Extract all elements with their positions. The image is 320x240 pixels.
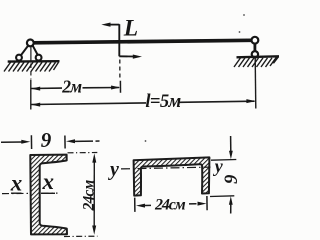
section1 dim 24cm bottom arrowhead [92,226,96,235]
svg-text:24см: 24см [154,197,186,214]
svg-text:9: 9 [41,128,52,152]
svg-text:x: x [42,169,55,194]
section1 dim 9 right arrow line [75,140,94,142]
section2 dim 9 bottom extension [210,195,234,198]
support A roller right [36,55,42,61]
dimension 2m line left part [32,87,63,89]
support B upper pin circle [252,37,259,44]
section1 dim 9 left arrowhead [21,140,30,144]
moment L top arrowhead [101,23,110,27]
section1 dim 24cm line [93,161,95,227]
section2 dim 9 up arrowhead [229,196,233,205]
dimension l=5m line left part [32,103,147,105]
support B link [253,43,256,51]
dimension 2m right arrowhead [111,86,120,90]
support B lower pin circle [252,51,258,57]
section2 dim 9 up arrow line [230,204,232,214]
channel section 1 (web left, opening right) [30,155,67,235]
svg-text:2м: 2м [61,76,82,96]
svg-text:x: x [10,171,23,196]
axis y-y centerline [121,167,211,169]
section1 dim 24cm bottom extension [64,235,98,237]
dimension l=5m line right part [180,101,255,102]
moment L vertical line [118,24,120,56]
section2 dim 24cm right tick [206,196,208,210]
section2 dim 24cm right arrowhead [198,202,207,206]
support B ground hatching [234,57,278,68]
dimension l=5m right arrowhead [246,99,255,103]
svg-text:24см: 24см [80,179,97,211]
section2 dim 9 top extension [211,159,236,162]
section1 dim 9 left arrow line [1,141,22,143]
dimension 2m line right part [83,87,120,89]
support A ground line [8,60,60,63]
support A roller left [16,55,22,61]
moment L top arm [108,24,119,26]
speck 2 [243,14,245,16]
svg-text:l=5м: l=5м [145,92,181,112]
dimension 2m left arrowhead [31,87,40,91]
section1 dim 9 right tick [64,136,66,149]
svg-text:L: L [123,16,138,42]
label x left underline [11,192,22,194]
moment L bottom arm [119,55,134,57]
support B ground line [237,56,280,57]
axis x-x centerline right part [42,192,58,194]
support A triangle left leg [21,46,29,56]
svg-text:y: y [213,156,224,176]
section2 dim 24cm line right [189,203,197,205]
speck 3 [239,31,241,33]
support A ground hatching [4,62,59,71]
section2 dim 9 down arrowhead [229,151,233,160]
section2 dim 9 down arrow line [230,136,232,152]
section1 dim 24cm top arrowhead [92,153,96,162]
moment L bottom arrowhead [133,55,142,59]
dimension l=5m left arrowhead [31,103,40,107]
section1 dim 9 right arrowhead [66,139,75,143]
channel section 2 (web top, opening down) [134,157,210,195]
svg-text:y: y [108,159,119,181]
support B extension line down [254,58,257,109]
speck 1 [145,140,147,142]
support A extension line down [30,46,32,62]
section2 dim 24cm left tick [134,198,136,212]
section2 dim 24cm left arrowhead [136,204,145,208]
axis x-x centerline left part [2,192,29,194]
support A triangle right leg [33,46,38,56]
section1 dim 24cm top extension [68,152,98,154]
beam [33,40,252,43]
svg-text:9: 9 [222,175,242,184]
label x right underline [41,192,55,194]
support A pin circle [27,40,34,47]
section1 dim 9 left tick [30,135,32,149]
section2 dim 24cm line left [145,204,152,206]
moment L extension dashes [119,60,121,80]
node tick 2m [119,81,121,93]
